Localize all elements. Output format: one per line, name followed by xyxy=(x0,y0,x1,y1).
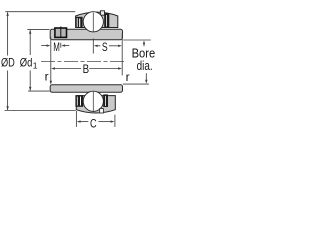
ball upper xyxy=(83,12,103,32)
d1 top arrow xyxy=(29,30,31,34)
svg-text:dia.: dia. xyxy=(137,58,153,73)
C right arrow xyxy=(111,120,115,122)
M right arrow xyxy=(61,44,65,46)
OD bottom arrow xyxy=(6,106,8,110)
dimension lines xyxy=(5,12,151,127)
B right arrow xyxy=(118,67,122,69)
svg-text:C: C xyxy=(90,116,97,130)
lubrication groove lower xyxy=(100,109,104,113)
svg-text:r: r xyxy=(45,70,49,84)
bore up arrow xyxy=(143,40,145,44)
seal upper-right xyxy=(104,13,109,27)
svg-text:B: B xyxy=(83,62,90,76)
fillet r right arrow stem xyxy=(145,73,147,80)
seal lower-left xyxy=(75,95,83,107)
extension line d1 bottom xyxy=(28,90,50,92)
svg-text:Ød: Ød xyxy=(20,55,33,69)
extension line d1 top xyxy=(27,29,49,31)
dimension line OD xyxy=(7,12,9,55)
dimension M right tail xyxy=(65,45,70,47)
inner ring upper section (width B) xyxy=(50,29,122,39)
extension line outer ring right face xyxy=(114,115,116,127)
d1 bottom arrow xyxy=(29,87,31,91)
dimension M left tail xyxy=(41,45,47,47)
dimension S line left xyxy=(97,45,100,47)
ball lower xyxy=(83,91,103,111)
extension line OD bottom xyxy=(5,110,76,112)
svg-text:r: r xyxy=(126,70,130,84)
extension line fillet r right xyxy=(123,83,149,85)
OD top arrow xyxy=(6,12,8,16)
dimension B line left xyxy=(54,68,81,70)
text labels xyxy=(1,40,156,130)
extension line inner ring left face xyxy=(50,37,52,83)
dimension B line right xyxy=(89,68,118,70)
extension line bore xyxy=(123,39,151,41)
C left arrow xyxy=(77,120,81,122)
outer ring lower section xyxy=(76,96,115,113)
extension line inner ring right face xyxy=(121,34,123,76)
inner ring lower section (sleeve) xyxy=(50,85,122,93)
dimension S line right xyxy=(109,45,119,47)
svg-text:1: 1 xyxy=(33,60,38,70)
svg-text:ØD: ØD xyxy=(1,55,15,69)
label OD (outer diameter) xyxy=(1,56,16,68)
fillet r left arrowhead xyxy=(50,81,52,85)
set screw M xyxy=(55,28,67,37)
extension line ball center plane xyxy=(92,39,94,54)
seal upper-left xyxy=(76,17,83,28)
outer ring upper section (spherical OD) xyxy=(76,12,118,27)
S right arrow xyxy=(118,45,122,47)
S left arrow xyxy=(94,45,98,47)
B left arrow xyxy=(51,67,55,69)
dimension line d1 xyxy=(29,30,31,55)
dimension C line left xyxy=(80,121,88,123)
dimension C line right xyxy=(98,121,111,123)
seal lower-right xyxy=(103,94,108,107)
centerline bearing axis xyxy=(41,60,125,62)
extension line outer ring left face xyxy=(75,111,77,127)
M left arrow xyxy=(47,44,51,46)
extension tick set screw center xyxy=(60,43,62,48)
bore arrow stem xyxy=(143,43,145,46)
fillet r right arrowhead xyxy=(145,80,147,84)
extension line OD top xyxy=(5,11,75,13)
svg-text:M: M xyxy=(53,40,60,54)
svg-text:S: S xyxy=(102,40,108,54)
arrowheads xyxy=(6,12,147,123)
lubrication groove upper xyxy=(100,11,104,15)
label Od1 (inner ring diameter) xyxy=(19,56,37,68)
